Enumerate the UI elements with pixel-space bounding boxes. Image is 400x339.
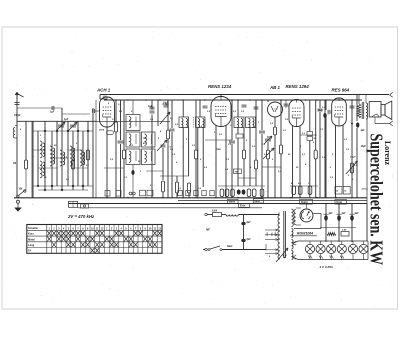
svg-text:4µF: 4µF xyxy=(341,212,347,215)
svg-text:4µF: 4µF xyxy=(328,212,334,215)
svg-text:0,5µF: 0,5µF xyxy=(350,157,356,159)
svg-text:4 V 0,25A: 4 V 0,25A xyxy=(319,265,333,269)
svg-text:TA: TA xyxy=(28,249,31,253)
svg-text:Mittel: Mittel xyxy=(28,237,35,241)
svg-text:Lang: Lang xyxy=(28,243,35,247)
svg-text:0,8A: 0,8A xyxy=(212,210,217,213)
svg-text:Supercelohet sen. KW: Supercelohet sen. KW xyxy=(366,134,386,266)
svg-text:1µF: 1µF xyxy=(148,105,153,108)
svg-text:10µF: 10µF xyxy=(361,146,367,148)
svg-text:RENS 1294: RENS 1294 xyxy=(286,84,310,89)
svg-text:RGN/1064: RGN/1064 xyxy=(297,231,313,235)
svg-text:Erde: Erde xyxy=(240,205,246,208)
svg-text:AB 1: AB 1 xyxy=(269,85,281,90)
svg-text:150pF: 150pF xyxy=(14,115,21,117)
svg-text:0,1µF: 0,1µF xyxy=(163,103,170,106)
svg-text:7M: 7M xyxy=(235,172,238,174)
svg-text:1µF: 1µF xyxy=(50,111,55,114)
svg-text:1µF: 1µF xyxy=(64,118,69,121)
svg-text:NF: NF xyxy=(206,228,210,232)
svg-text:RES 964: RES 964 xyxy=(332,88,350,93)
svg-text:7MΩ: 7MΩ xyxy=(216,149,221,151)
svg-text:Schalter: Schalter xyxy=(28,226,38,230)
svg-text:2V04: 2V04 xyxy=(98,129,105,132)
svg-text:8µF: 8µF xyxy=(247,222,252,224)
svg-text:1M: 1M xyxy=(13,163,16,165)
svg-text:2V = 470 kHz: 2V = 470 kHz xyxy=(67,214,95,219)
svg-text:8µF: 8µF xyxy=(247,239,252,241)
svg-text:ACH 1: ACH 1 xyxy=(96,88,111,93)
svg-text:4µF: 4µF xyxy=(354,212,360,215)
svg-text:4µF: 4µF xyxy=(360,129,366,132)
svg-text:Kurz: Kurz xyxy=(28,232,34,236)
svg-text:Netz: Netz xyxy=(227,244,233,248)
svg-text:RENS 1234: RENS 1234 xyxy=(208,84,232,89)
